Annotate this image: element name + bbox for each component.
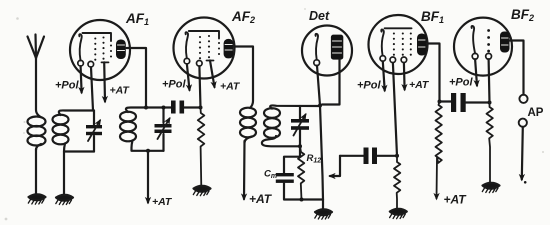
svg-text:+Pol: +Pol [55,80,79,92]
svg-text:Det: Det [309,9,330,23]
svg-text:+Pol: +Pol [449,77,473,89]
svg-text:+AT: +AT [249,192,273,206]
svg-text:BF1: BF1 [421,9,444,25]
svg-text:Cm: Cm [264,169,277,181]
svg-text:AP: AP [528,107,544,119]
svg-text:R12: R12 [307,153,322,165]
svg-text:+AT: +AT [110,85,131,97]
svg-text:AF2: AF2 [231,9,255,25]
svg-text:BF2: BF2 [511,7,534,23]
svg-text:+AT: +AT [152,196,173,208]
svg-text:+AT: +AT [220,81,241,93]
svg-text:+AT: +AT [409,79,430,91]
svg-text:AF1: AF1 [125,11,149,27]
svg-text:+AT: +AT [444,193,468,207]
svg-text:+Pol: +Pol [162,79,186,91]
svg-text:+Pol: +Pol [357,80,381,92]
